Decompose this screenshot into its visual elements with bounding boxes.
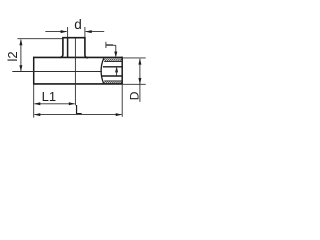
svg-text:l2: l2 (5, 51, 20, 61)
svg-text:D: D (128, 91, 142, 100)
svg-text:L1: L1 (42, 89, 56, 104)
svg-text:L: L (75, 102, 82, 117)
svg-text:T: T (104, 41, 116, 48)
svg-text:d: d (74, 17, 82, 32)
